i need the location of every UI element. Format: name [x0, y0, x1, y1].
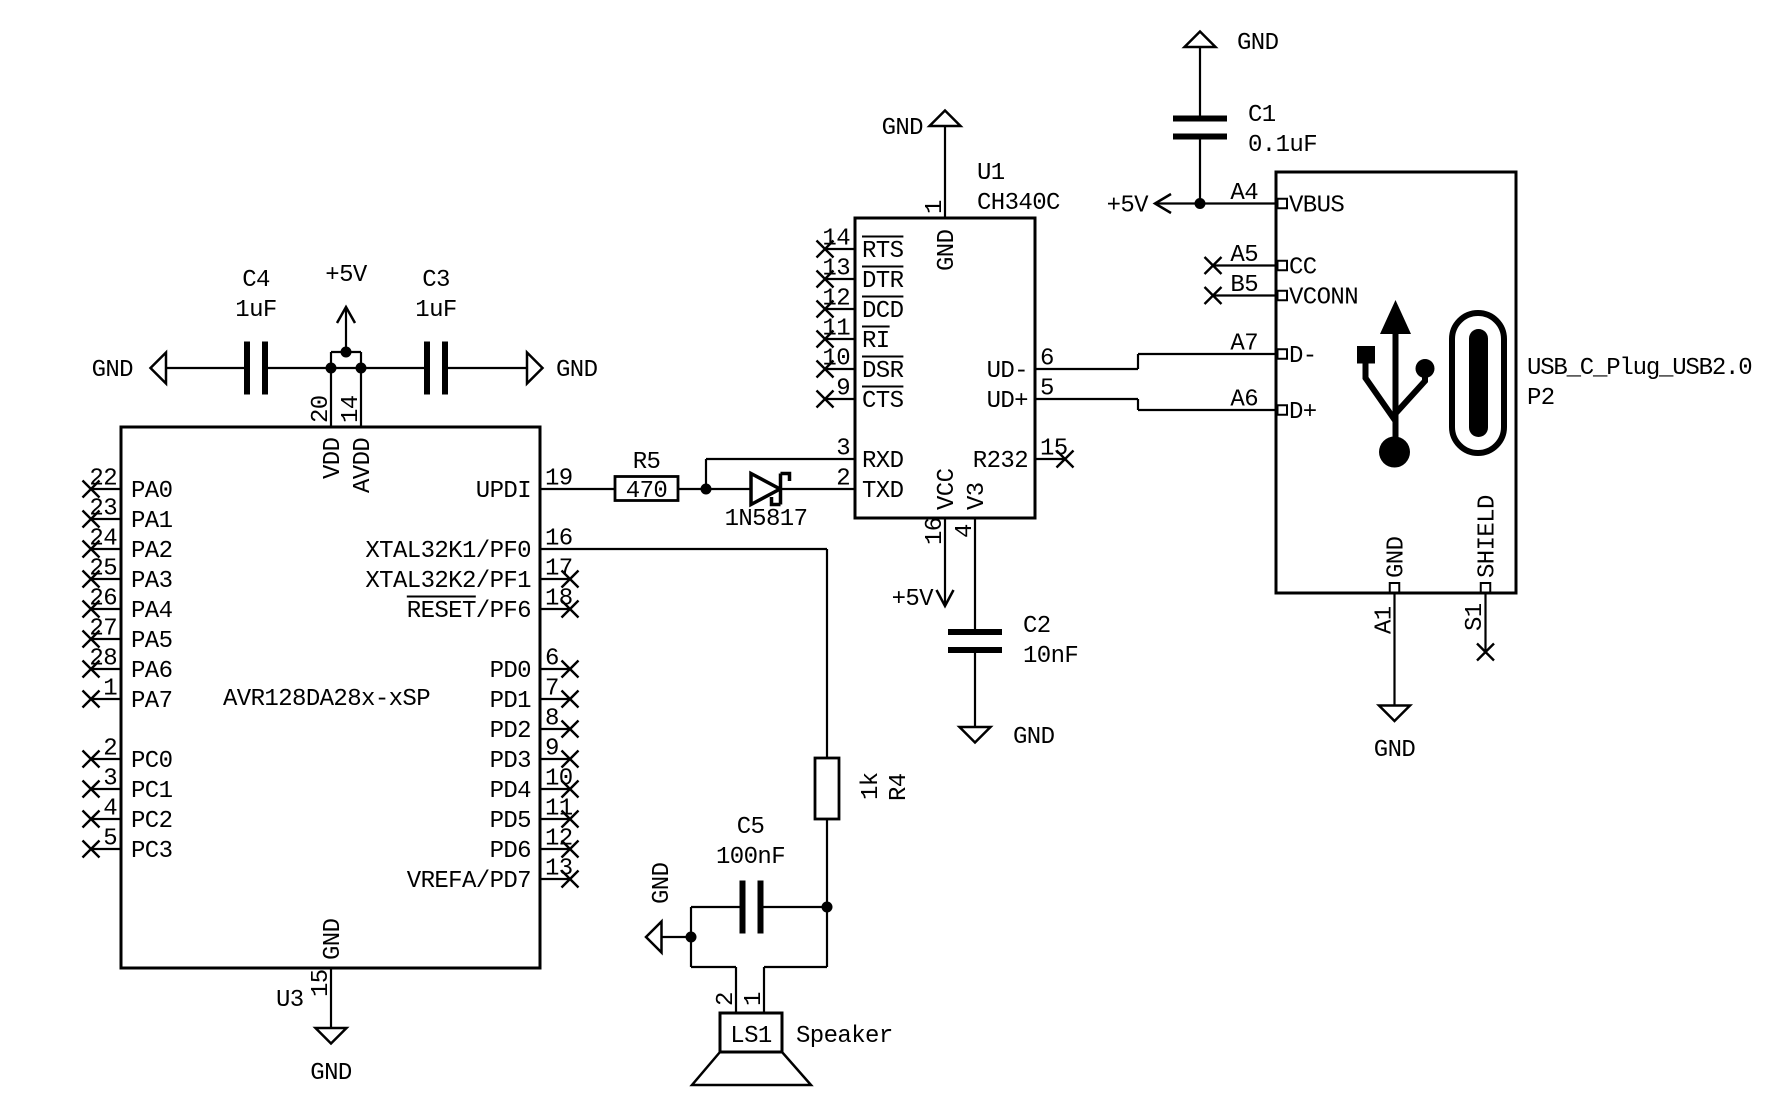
svg-text:12: 12 — [822, 286, 850, 313]
net label GND (left of C4) — [92, 357, 134, 384]
svg-text:UD+: UD+ — [987, 388, 1029, 415]
speaker LS1 — [692, 1013, 811, 1085]
pin 14 number (AVDD) — [338, 395, 365, 423]
pin S1 no-connect — [1477, 583, 1494, 661]
value 0.1uF (C1) — [1248, 132, 1317, 159]
svg-text:1uF: 1uF — [235, 297, 276, 324]
svg-text:PA5: PA5 — [131, 628, 172, 655]
svg-text:24: 24 — [89, 526, 117, 553]
resistor R4 — [815, 758, 839, 819]
resistor R5 — [615, 477, 678, 501]
svg-text:C1: C1 — [1248, 102, 1276, 129]
net label GND (above U1) — [882, 115, 924, 142]
svg-text:D+: D+ — [1289, 399, 1317, 426]
svg-text:GND: GND — [310, 1060, 352, 1087]
svg-text:UPDI: UPDI — [476, 478, 531, 505]
svg-text:RESET/PF6: RESET/PF6 — [407, 598, 531, 625]
diode D1 1N5817 — [751, 474, 790, 505]
wire node to speaker pin2 — [691, 967, 736, 1013]
svg-text:+5V: +5V — [892, 586, 935, 613]
pin A4 VBUS (P2) — [1230, 180, 1344, 220]
ground symbol below U3 — [316, 1028, 347, 1044]
label C3 — [422, 267, 450, 294]
pin A7 D- (P2) — [1230, 331, 1316, 371]
svg-text:GND: GND — [1374, 737, 1416, 764]
wire +5V jog — [331, 351, 361, 353]
pin 17 XTAL32K2/PF1 (U3) — [365, 556, 578, 596]
pin 5 PC3 (U3) — [83, 826, 173, 866]
wire node to diode anode — [706, 488, 751, 490]
svg-text:R4: R4 — [886, 773, 913, 801]
svg-text:GND: GND — [92, 357, 134, 384]
svg-text:GND: GND — [934, 229, 961, 271]
pin 14 RTS (U1) — [817, 226, 904, 266]
label C5 — [737, 814, 765, 841]
wire C5-left vertical — [690, 907, 692, 967]
svg-text:DSR: DSR — [862, 358, 904, 385]
ground symbol above U1 — [930, 111, 961, 127]
svg-text:U1: U1 — [977, 160, 1005, 187]
pin 3 RXD (U1) — [836, 436, 903, 476]
node GND-C5 junction — [686, 932, 697, 943]
pin 25 PA3 (U3) — [83, 556, 173, 596]
svg-text:27: 27 — [89, 616, 117, 643]
pin A6 D+ (P2) — [1230, 387, 1316, 427]
svg-text:0.1uF: 0.1uF — [1248, 132, 1317, 159]
svg-text:RTS: RTS — [862, 238, 904, 265]
svg-text:5: 5 — [103, 826, 117, 853]
pin 19 UPDI (U3) — [476, 466, 573, 506]
pin 16 XTAL32K1/PF0 (U3) — [365, 526, 572, 566]
svg-text:GND: GND — [320, 918, 347, 960]
svg-text:CC: CC — [1289, 255, 1317, 282]
svg-text:PD2: PD2 — [490, 718, 531, 745]
svg-text:PD6: PD6 — [490, 838, 531, 865]
svg-text:1k: 1k — [858, 772, 885, 800]
label C2 — [1023, 613, 1051, 640]
svg-text:100nF: 100nF — [716, 844, 785, 871]
wire ground to node — [662, 936, 692, 938]
pin name SHIELD (P2) — [1475, 495, 1502, 578]
pin 9 CTS (U1) — [817, 376, 904, 416]
svg-text:VREFA/PD7: VREFA/PD7 — [407, 868, 531, 895]
capacitor C5 — [743, 881, 761, 934]
svg-text:A4: A4 — [1230, 180, 1258, 207]
pin 6 UD- (U1) — [987, 346, 1138, 386]
svg-text:GND: GND — [1237, 30, 1279, 57]
pin 10 PD4 (U3) — [490, 766, 579, 806]
svg-text:AVDD: AVDD — [350, 438, 377, 493]
net label +5V (U1 VCC) — [892, 586, 935, 613]
svg-text:V3: V3 — [964, 482, 991, 510]
pin 3 PC1 (U3) — [83, 766, 173, 806]
value 1N5817 (D1) — [725, 506, 808, 533]
svg-text:PC0: PC0 — [131, 748, 172, 775]
pin B5 VCONN (P2) — [1205, 272, 1359, 312]
ground symbol above C1 — [1185, 32, 1216, 48]
svg-text:PA4: PA4 — [131, 598, 173, 625]
node C1-VBUS junction — [1195, 198, 1206, 209]
pin 13 VREFA/PD7 (U3) — [407, 856, 579, 896]
power symbol +5V (down, U1) — [937, 590, 954, 606]
value 1k (R4) — [858, 772, 885, 800]
svg-text:PA3: PA3 — [131, 568, 172, 595]
wire AVDD node to C3 — [361, 367, 427, 369]
svg-text:GND: GND — [882, 115, 924, 142]
label R5 — [633, 449, 661, 476]
net label +5V (top) — [325, 262, 368, 289]
wire PF0 to R4 — [540, 549, 827, 758]
pin 26 PA4 (U3) — [83, 586, 173, 626]
svg-text:B5: B5 — [1230, 272, 1258, 299]
pin 5 UD+ (U1) — [987, 376, 1138, 416]
svg-text:1: 1 — [741, 992, 768, 1006]
pin 1 number (U1 GND) — [922, 200, 949, 214]
wire U1 V3 to C2 — [974, 518, 976, 629]
svg-text:470: 470 — [626, 478, 667, 505]
svg-text:25: 25 — [89, 556, 117, 583]
svg-text:DTR: DTR — [862, 268, 904, 295]
node RXD-TXD junction — [701, 484, 712, 495]
pin 15 number (U3 GND) — [308, 969, 335, 997]
svg-text:5: 5 — [1040, 376, 1054, 403]
svg-text:PD5: PD5 — [490, 808, 531, 835]
pin 2 number (LS1) — [713, 992, 740, 1006]
svg-text:PA6: PA6 — [131, 658, 172, 685]
svg-text:GND: GND — [649, 862, 676, 904]
wire U1 pin1 to ground — [944, 126, 946, 218]
pin 1 number (LS1) — [741, 992, 768, 1006]
svg-text:3: 3 — [103, 766, 117, 793]
svg-text:PD0: PD0 — [490, 658, 531, 685]
svg-text:1N5817: 1N5817 — [725, 506, 808, 533]
pin 13 DTR (U1) — [817, 256, 904, 296]
svg-text:10: 10 — [822, 346, 850, 373]
wire +5V to VBUS — [1155, 202, 1276, 204]
svg-text:3: 3 — [836, 436, 850, 463]
capacitor C4 — [247, 342, 265, 395]
svg-text:15: 15 — [1040, 436, 1068, 463]
svg-text:DCD: DCD — [862, 298, 904, 325]
wire node up to RXD — [706, 459, 855, 489]
pin 18 RESET/PF6 (U3) — [407, 586, 579, 626]
pin 23 PA1 (U3) — [83, 496, 173, 536]
svg-text:13: 13 — [822, 256, 850, 283]
svg-text:9: 9 — [836, 376, 850, 403]
pin 1 PA7 (U3) — [83, 676, 173, 716]
wire R5 to node — [678, 488, 706, 490]
pin 11 PD5 (U3) — [490, 796, 579, 836]
svg-text:C3: C3 — [422, 267, 450, 294]
power symbol +5V (left, VBUS) — [1155, 194, 1171, 213]
svg-text:2: 2 — [713, 992, 740, 1006]
svg-text:PC3: PC3 — [131, 838, 172, 865]
pin name VCC (U1) — [934, 468, 961, 510]
capacitor C1 — [1173, 119, 1227, 137]
ground symbol below P2 — [1379, 706, 1410, 722]
ground symbol right of C3 — [527, 353, 543, 384]
svg-text:C5: C5 — [737, 814, 765, 841]
label U1 — [977, 160, 1005, 187]
pin S1 number (P2 SHIELD) — [1462, 603, 1489, 631]
svg-text:USB_C_Plug_USB2.0: USB_C_Plug_USB2.0 — [1527, 355, 1751, 382]
svg-text:+5V: +5V — [325, 262, 368, 289]
net label GND (below U3) — [310, 1060, 352, 1087]
label Speaker — [796, 1023, 893, 1050]
svg-text:VDD: VDD — [320, 437, 347, 479]
pin 20 number (VDD) — [308, 395, 335, 423]
wire C1 to VBUS net — [1199, 140, 1201, 204]
net label GND (below P2) — [1374, 737, 1416, 764]
svg-text:C2: C2 — [1023, 613, 1051, 640]
svg-text:A7: A7 — [1230, 331, 1258, 358]
svg-text:VBUS: VBUS — [1289, 193, 1344, 220]
power symbol +5V (top) — [337, 307, 355, 358]
svg-text:LS1: LS1 — [730, 1023, 772, 1050]
capacitor C2 — [948, 632, 1002, 650]
svg-text:PA7: PA7 — [131, 688, 172, 715]
pin name GND (U3) — [320, 918, 347, 960]
capacitor C3 — [427, 342, 445, 395]
svg-text:23: 23 — [89, 496, 117, 523]
wire VDD node to AVDD node — [331, 367, 361, 369]
pin name V3 (U1) — [964, 482, 991, 510]
svg-text:PC2: PC2 — [131, 808, 172, 835]
node R4-C5 junction — [822, 902, 833, 913]
value CH340C (U1) — [977, 190, 1060, 217]
svg-text:XTAL32K2/PF1: XTAL32K2/PF1 — [365, 568, 531, 595]
wire GND to C4 — [166, 367, 247, 369]
pin 8 PD2 (U3) — [490, 706, 579, 746]
svg-text:14: 14 — [822, 226, 850, 253]
svg-text:PC1: PC1 — [131, 778, 173, 805]
pin 28 PA6 (U3) — [83, 646, 173, 686]
svg-text:CTS: CTS — [862, 388, 904, 415]
svg-text:SHIELD: SHIELD — [1475, 495, 1502, 578]
pin name GND (P2) — [1384, 536, 1411, 578]
wire VDD vertical pin 20 — [330, 352, 332, 427]
svg-text:PD1: PD1 — [490, 688, 532, 715]
pin 11 RI (U1) — [817, 316, 890, 356]
node AVDD junction — [356, 363, 367, 374]
svg-text:R232: R232 — [973, 448, 1028, 475]
label C4 — [242, 267, 270, 294]
net label GND (right of C3) — [556, 357, 598, 384]
svg-text:UD-: UD- — [987, 358, 1028, 385]
value AVR128DA28x-xSP — [223, 686, 430, 713]
svg-text:RXD: RXD — [862, 448, 904, 475]
svg-text:1uF: 1uF — [415, 297, 456, 324]
pin 4 PC2 (U3) — [83, 796, 173, 836]
svg-text:20: 20 — [308, 395, 335, 423]
wire C4 to VDD node — [268, 367, 331, 369]
value 10nF (C2) — [1023, 643, 1078, 670]
pin 12 DCD (U1) — [817, 286, 904, 326]
wire UD+ to D+ — [1138, 399, 1276, 410]
usb logo trident — [1357, 300, 1435, 468]
wire UPDI to R5 — [540, 488, 615, 490]
wire UD- to D- — [1138, 354, 1276, 369]
svg-text:VCONN: VCONN — [1289, 285, 1358, 312]
svg-text:VCC: VCC — [934, 468, 961, 510]
label U3 — [276, 987, 304, 1014]
svg-text:AVR128DA28x-xSP: AVR128DA28x-xSP — [223, 686, 430, 713]
pin A1 number (P2 GND) — [1372, 606, 1399, 634]
svg-text:RI: RI — [862, 328, 890, 355]
svg-text:GND: GND — [556, 357, 598, 384]
pin 12 PD6 (U3) — [490, 826, 579, 866]
svg-text:2: 2 — [103, 736, 117, 763]
label P2 — [1527, 385, 1555, 412]
svg-text:GND: GND — [1013, 724, 1055, 751]
label USB_C_Plug_USB2.0 (P2) — [1527, 355, 1751, 382]
pin name GND (U1) — [934, 229, 961, 271]
wire AVDD vertical pin 14 — [360, 352, 362, 427]
wire C2 to ground — [974, 653, 976, 727]
pin 22 PA0 (U3) — [83, 466, 173, 506]
pin 9 PD3 (U3) — [490, 736, 579, 776]
svg-text:4: 4 — [103, 796, 117, 823]
svg-text:TXD: TXD — [862, 478, 904, 505]
wire P2 GND pin — [1390, 583, 1400, 706]
svg-text:22: 22 — [89, 466, 117, 493]
pin name AVDD — [350, 438, 377, 493]
svg-text:GND: GND — [1384, 536, 1411, 578]
net label GND (below C2) — [1013, 724, 1055, 751]
svg-text:P2: P2 — [1527, 385, 1555, 412]
svg-text:1: 1 — [103, 676, 117, 703]
svg-text:6: 6 — [1040, 346, 1054, 373]
svg-text:26: 26 — [89, 586, 117, 613]
wire U1 VCC to +5V — [944, 518, 946, 606]
svg-text:14: 14 — [338, 395, 365, 423]
pin 6 PD0 (U3) — [490, 646, 579, 686]
svg-text:PA2: PA2 — [131, 538, 172, 565]
ground symbol left of speaker — [646, 922, 662, 953]
value 470 (R5) — [626, 478, 667, 505]
wire R4 to C5 node — [826, 819, 828, 907]
pin name VDD — [320, 437, 347, 479]
svg-text:PA1: PA1 — [131, 508, 173, 535]
net label +5V (VBUS) — [1107, 193, 1150, 220]
value 100nF (C5) — [716, 844, 785, 871]
pin 15 R232 (U1) — [973, 436, 1074, 476]
usb-serial U1 body — [855, 218, 1035, 518]
wire C5 left — [691, 906, 740, 908]
net label GND (speaker, rotated) — [649, 862, 676, 904]
svg-text:2: 2 — [836, 466, 850, 493]
wire C5 node to speaker pin1 — [764, 907, 827, 1013]
svg-text:PD3: PD3 — [490, 748, 531, 775]
pin A5 CC (P2) — [1205, 242, 1317, 282]
ground symbol left of C4 — [151, 353, 167, 384]
usb connector P2 body — [1276, 172, 1516, 593]
pin 7 PD1 (U3) — [490, 676, 579, 716]
ground symbol below C2 — [960, 727, 991, 743]
svg-text:PA0: PA0 — [131, 478, 172, 505]
wire diode cathode to TXD — [781, 488, 855, 490]
node VDD junction — [326, 363, 337, 374]
label LS1 — [730, 1023, 772, 1050]
value 1uF (C3) — [415, 297, 456, 324]
svg-text:Speaker: Speaker — [796, 1023, 893, 1050]
pin 24 PA2 (U3) — [83, 526, 173, 566]
pin 2 PC0 (U3) — [83, 736, 173, 776]
wire U3 pin15 to ground — [330, 968, 332, 1028]
wire C5 right — [763, 906, 827, 908]
pin 10 DSR (U1) — [817, 346, 904, 386]
wire ground to C1 — [1199, 47, 1201, 116]
svg-text:D-: D- — [1289, 343, 1317, 370]
svg-text:28: 28 — [89, 646, 117, 673]
svg-text:10nF: 10nF — [1023, 643, 1078, 670]
pin 2 TXD (U1) — [836, 466, 903, 506]
wire C3 to GND right — [448, 367, 527, 369]
pin 16 number (U1 VCC) — [922, 517, 949, 545]
svg-text:11: 11 — [822, 316, 850, 343]
value 1uF (C4) — [235, 297, 276, 324]
svg-text:C4: C4 — [242, 267, 270, 294]
usb-c receptacle icon — [1452, 313, 1504, 453]
net label GND (above C1) — [1237, 30, 1279, 57]
svg-text:XTAL32K1/PF0: XTAL32K1/PF0 — [365, 538, 531, 565]
pin 4 number (U1 V3) — [952, 524, 979, 538]
microcontroller U3 body — [121, 427, 540, 968]
svg-text:PD4: PD4 — [490, 778, 532, 805]
label R4 — [886, 773, 913, 801]
label C1 — [1248, 102, 1276, 129]
pin 27 PA5 (U3) — [83, 616, 173, 656]
svg-text:A6: A6 — [1230, 387, 1258, 414]
svg-text:R5: R5 — [633, 449, 661, 476]
svg-text:CH340C: CH340C — [977, 190, 1060, 217]
svg-text:U3: U3 — [276, 987, 304, 1014]
svg-text:+5V: +5V — [1107, 193, 1150, 220]
svg-text:A5: A5 — [1230, 242, 1258, 269]
